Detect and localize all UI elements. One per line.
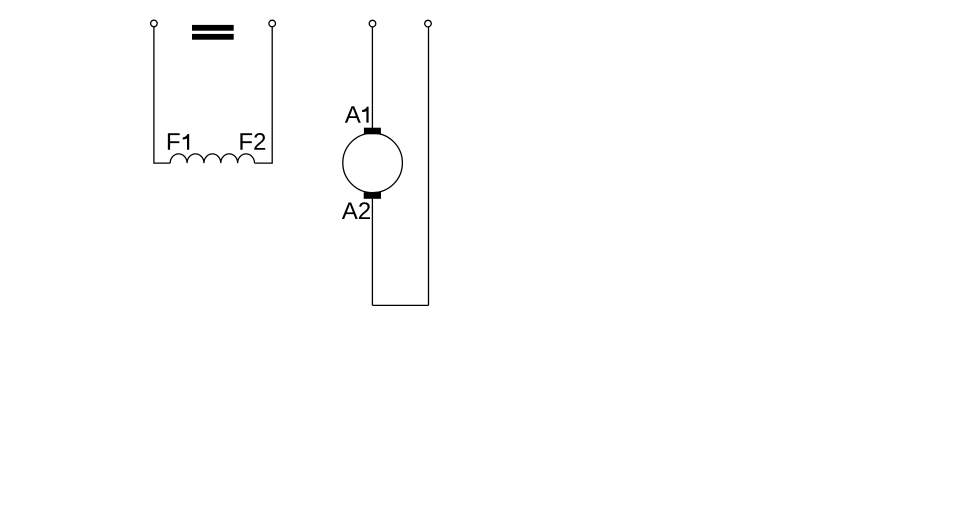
- label F2: [240, 133, 265, 150]
- wire bottom horizontal return: [372, 304, 428, 306]
- polarity double bar symbol (upper bar): [192, 25, 234, 31]
- wire armature bottom vertical: [371, 199, 373, 306]
- label A1: [345, 106, 369, 123]
- armature circle (motor): [343, 133, 403, 193]
- label F1: [168, 133, 189, 150]
- label A2: [342, 202, 370, 219]
- brush A1 (top): [364, 128, 381, 135]
- terminal (open circle) field left: [151, 20, 158, 27]
- wire right vertical return: [428, 27, 430, 305]
- terminal (open circle) field right: [269, 20, 276, 27]
- brush A2 (bottom): [364, 192, 381, 199]
- field winding coil F1-F2 (inductor, 5 humps): [170, 154, 254, 163]
- wire coil right lead + field right vertical: [255, 27, 273, 163]
- polarity double bar symbol (lower bar): [192, 34, 234, 40]
- terminal (open circle) armature return top: [425, 20, 432, 27]
- wire armature top vertical: [371, 27, 373, 128]
- wire field left vertical + bottom lead to coil: [154, 27, 170, 163]
- terminal (open circle) armature top: [369, 20, 376, 27]
